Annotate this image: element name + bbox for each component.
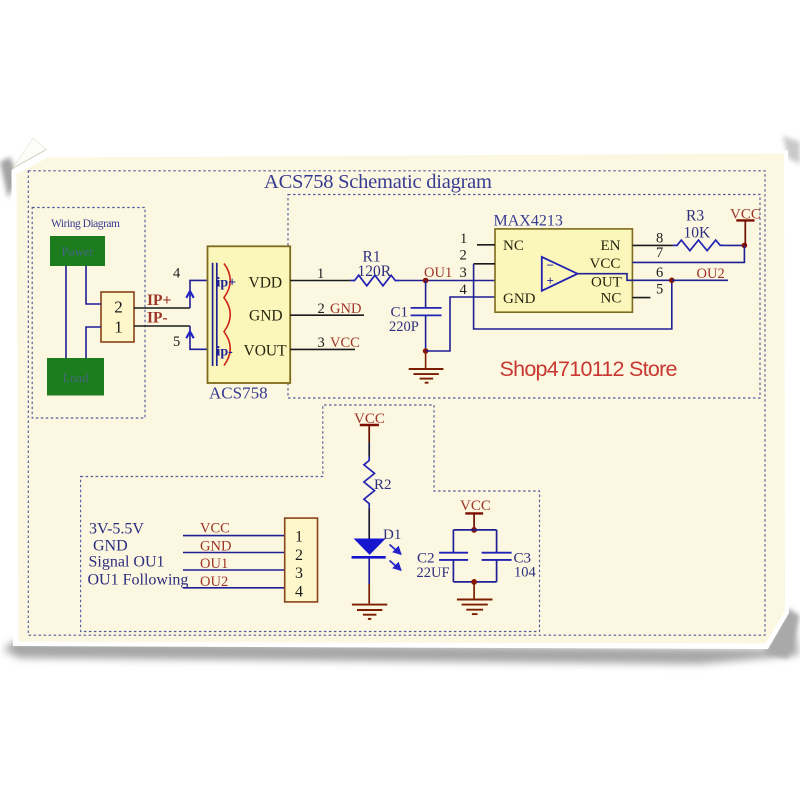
wire VCC node to pin7	[632, 245, 744, 262]
resistor R2 (vertical)	[364, 457, 375, 508]
pin3 stub	[290, 348, 355, 350]
ground (D1)	[352, 605, 387, 619]
svg-text:220P: 220P	[389, 319, 419, 335]
svg-text:2: 2	[318, 301, 325, 317]
svg-text:VDD: VDD	[249, 275, 283, 292]
svg-text:Shop4710112 Store: Shop4710112 Store	[500, 357, 678, 381]
svg-text:VCC: VCC	[330, 335, 360, 351]
svg-text:+: +	[547, 273, 554, 288]
svg-text:R3: R3	[686, 208, 704, 225]
IC U1 MAX4213 body	[495, 229, 632, 312]
svg-text:ACS758 Schematic diagram: ACS758 Schematic diagram	[264, 171, 492, 193]
svg-text:1: 1	[317, 266, 324, 282]
pin5 stub	[632, 297, 650, 299]
svg-text:VCC: VCC	[460, 498, 491, 514]
node pin6	[669, 278, 675, 284]
wire IP- run	[134, 325, 190, 327]
svg-text:EN: EN	[601, 238, 621, 254]
svg-text:22UF: 22UF	[417, 565, 450, 581]
wire D1 to ground	[368, 559, 370, 585]
wire R2 to D1	[368, 508, 370, 539]
svg-text:2: 2	[295, 547, 303, 564]
page drop shadow bottom	[3, 619, 799, 664]
wire R3 to VCC node	[725, 244, 745, 246]
svg-text:120R: 120R	[358, 263, 392, 280]
page shadow top-left corner	[0, 157, 19, 198]
svg-text:ip-: ip-	[217, 345, 234, 360]
svg-text:OU1: OU1	[424, 265, 452, 281]
svg-text:OUT: OUT	[591, 275, 622, 291]
node C2C3 top	[471, 527, 477, 533]
pin2 stub	[290, 314, 364, 316]
svg-text:3: 3	[295, 565, 303, 582]
svg-text:Load: Load	[63, 371, 89, 385]
svg-text:NC: NC	[503, 238, 524, 254]
svg-text:VCC: VCC	[200, 521, 230, 537]
svg-text:10K: 10K	[684, 225, 712, 242]
wire R1 to OU1 to U1 pin3	[399, 280, 495, 282]
svg-text:1: 1	[295, 529, 303, 546]
svg-text:2: 2	[114, 298, 123, 317]
node C2C3 bottom	[471, 579, 477, 585]
svg-text:OU2: OU2	[697, 266, 725, 282]
svg-text:Power: Power	[62, 245, 95, 259]
wire C1 to U1 pin4	[426, 297, 495, 351]
white page	[12, 149, 790, 650]
dashed polygon: bottom section	[81, 405, 540, 632]
op-amp triangle	[542, 257, 578, 291]
svg-text:4: 4	[460, 282, 468, 298]
LED D1	[354, 539, 386, 555]
OU2 stub	[672, 279, 728, 281]
wire to ground	[473, 582, 475, 599]
page shadow bottom-right wedge	[764, 608, 800, 658]
pin8 wire to R3	[632, 244, 673, 246]
capacitor C1	[425, 281, 427, 308]
wire IP+ run	[134, 307, 190, 309]
svg-text:3: 3	[318, 335, 325, 351]
connector J2 (4-pin)	[285, 518, 318, 602]
svg-text:GND: GND	[93, 538, 128, 555]
svg-text:5: 5	[656, 282, 663, 298]
wire VCC to connector	[183, 535, 285, 537]
svg-text:ACS758: ACS758	[209, 384, 268, 403]
page shadow top-right corner	[783, 136, 800, 164]
wire OU2 to connector	[183, 587, 285, 589]
cap frame top	[453, 529, 496, 531]
wire OU1 to connector	[183, 569, 285, 571]
svg-text:−: −	[547, 258, 554, 273]
svg-text:6: 6	[656, 265, 663, 281]
capacitor C3	[496, 530, 498, 552]
IC U2 ACS758 body	[208, 246, 291, 383]
svg-text:GND: GND	[503, 291, 536, 307]
wire power to pin2	[86, 266, 101, 304]
svg-text:4: 4	[295, 584, 303, 601]
svg-text:GND: GND	[330, 301, 361, 317]
svg-text:VOUT: VOUT	[244, 343, 288, 360]
wire power-load	[65, 266, 67, 358]
svg-text:D1: D1	[383, 527, 401, 543]
node OU1	[423, 278, 429, 284]
svg-text:NC: NC	[601, 291, 622, 307]
svg-text:4: 4	[173, 266, 181, 282]
connector J1 (2-pin)	[101, 292, 134, 342]
arrow on IP+	[186, 291, 193, 298]
dashed box: wiring diagram	[32, 208, 145, 419]
svg-text:5: 5	[173, 334, 180, 350]
svg-text:3: 3	[460, 265, 467, 281]
coil (red arcs)	[224, 264, 230, 366]
outer dashed border	[28, 171, 765, 635]
wire to ground	[425, 351, 427, 368]
primary conductor lines	[212, 263, 214, 366]
ground (C2C3)	[457, 600, 493, 615]
node C1 bottom	[423, 348, 429, 354]
svg-text:ip+: ip+	[217, 276, 237, 291]
svg-text:Wiring Diagram: Wiring Diagram	[51, 218, 120, 230]
resistor R3	[673, 240, 725, 251]
resistor R1	[351, 275, 400, 286]
dashed box: top-right section	[288, 195, 760, 399]
OUT wire inside	[578, 274, 672, 281]
arrow on IP-	[186, 332, 193, 339]
cream sheet	[17, 154, 786, 644]
svg-text:3V-5.5V: 3V-5.5V	[89, 521, 144, 538]
svg-text:VCC: VCC	[590, 256, 621, 272]
load box	[47, 358, 104, 396]
folded corner top-left	[13, 138, 47, 169]
svg-text:7: 7	[656, 245, 663, 261]
pin1 stub	[477, 244, 495, 246]
svg-text:MAX4213: MAX4213	[494, 213, 563, 230]
svg-text:104: 104	[514, 565, 537, 581]
svg-text:IP+: IP+	[147, 292, 172, 309]
wire GND to connector	[183, 552, 285, 554]
wire load to pin1	[86, 327, 101, 358]
node VCC/R3	[742, 243, 748, 249]
feedback wire pin2-pin6	[474, 264, 672, 329]
svg-text:2: 2	[460, 248, 467, 264]
ground (C1)	[409, 369, 444, 383]
capacitor C2	[452, 530, 454, 552]
power box	[50, 236, 105, 266]
pin1 stub to R1	[290, 280, 350, 282]
svg-text:1: 1	[114, 318, 123, 337]
cap frame bottom	[453, 581, 496, 583]
svg-text:OU1 Following: OU1 Following	[88, 572, 189, 589]
svg-text:Signal OU1: Signal OU1	[89, 554, 165, 571]
svg-text:GND: GND	[249, 308, 283, 325]
svg-text:R2: R2	[374, 477, 392, 493]
LED arrows	[390, 545, 401, 570]
pin2 stub	[474, 263, 495, 265]
svg-text:IP-: IP-	[147, 310, 168, 327]
svg-text:1: 1	[460, 231, 467, 247]
